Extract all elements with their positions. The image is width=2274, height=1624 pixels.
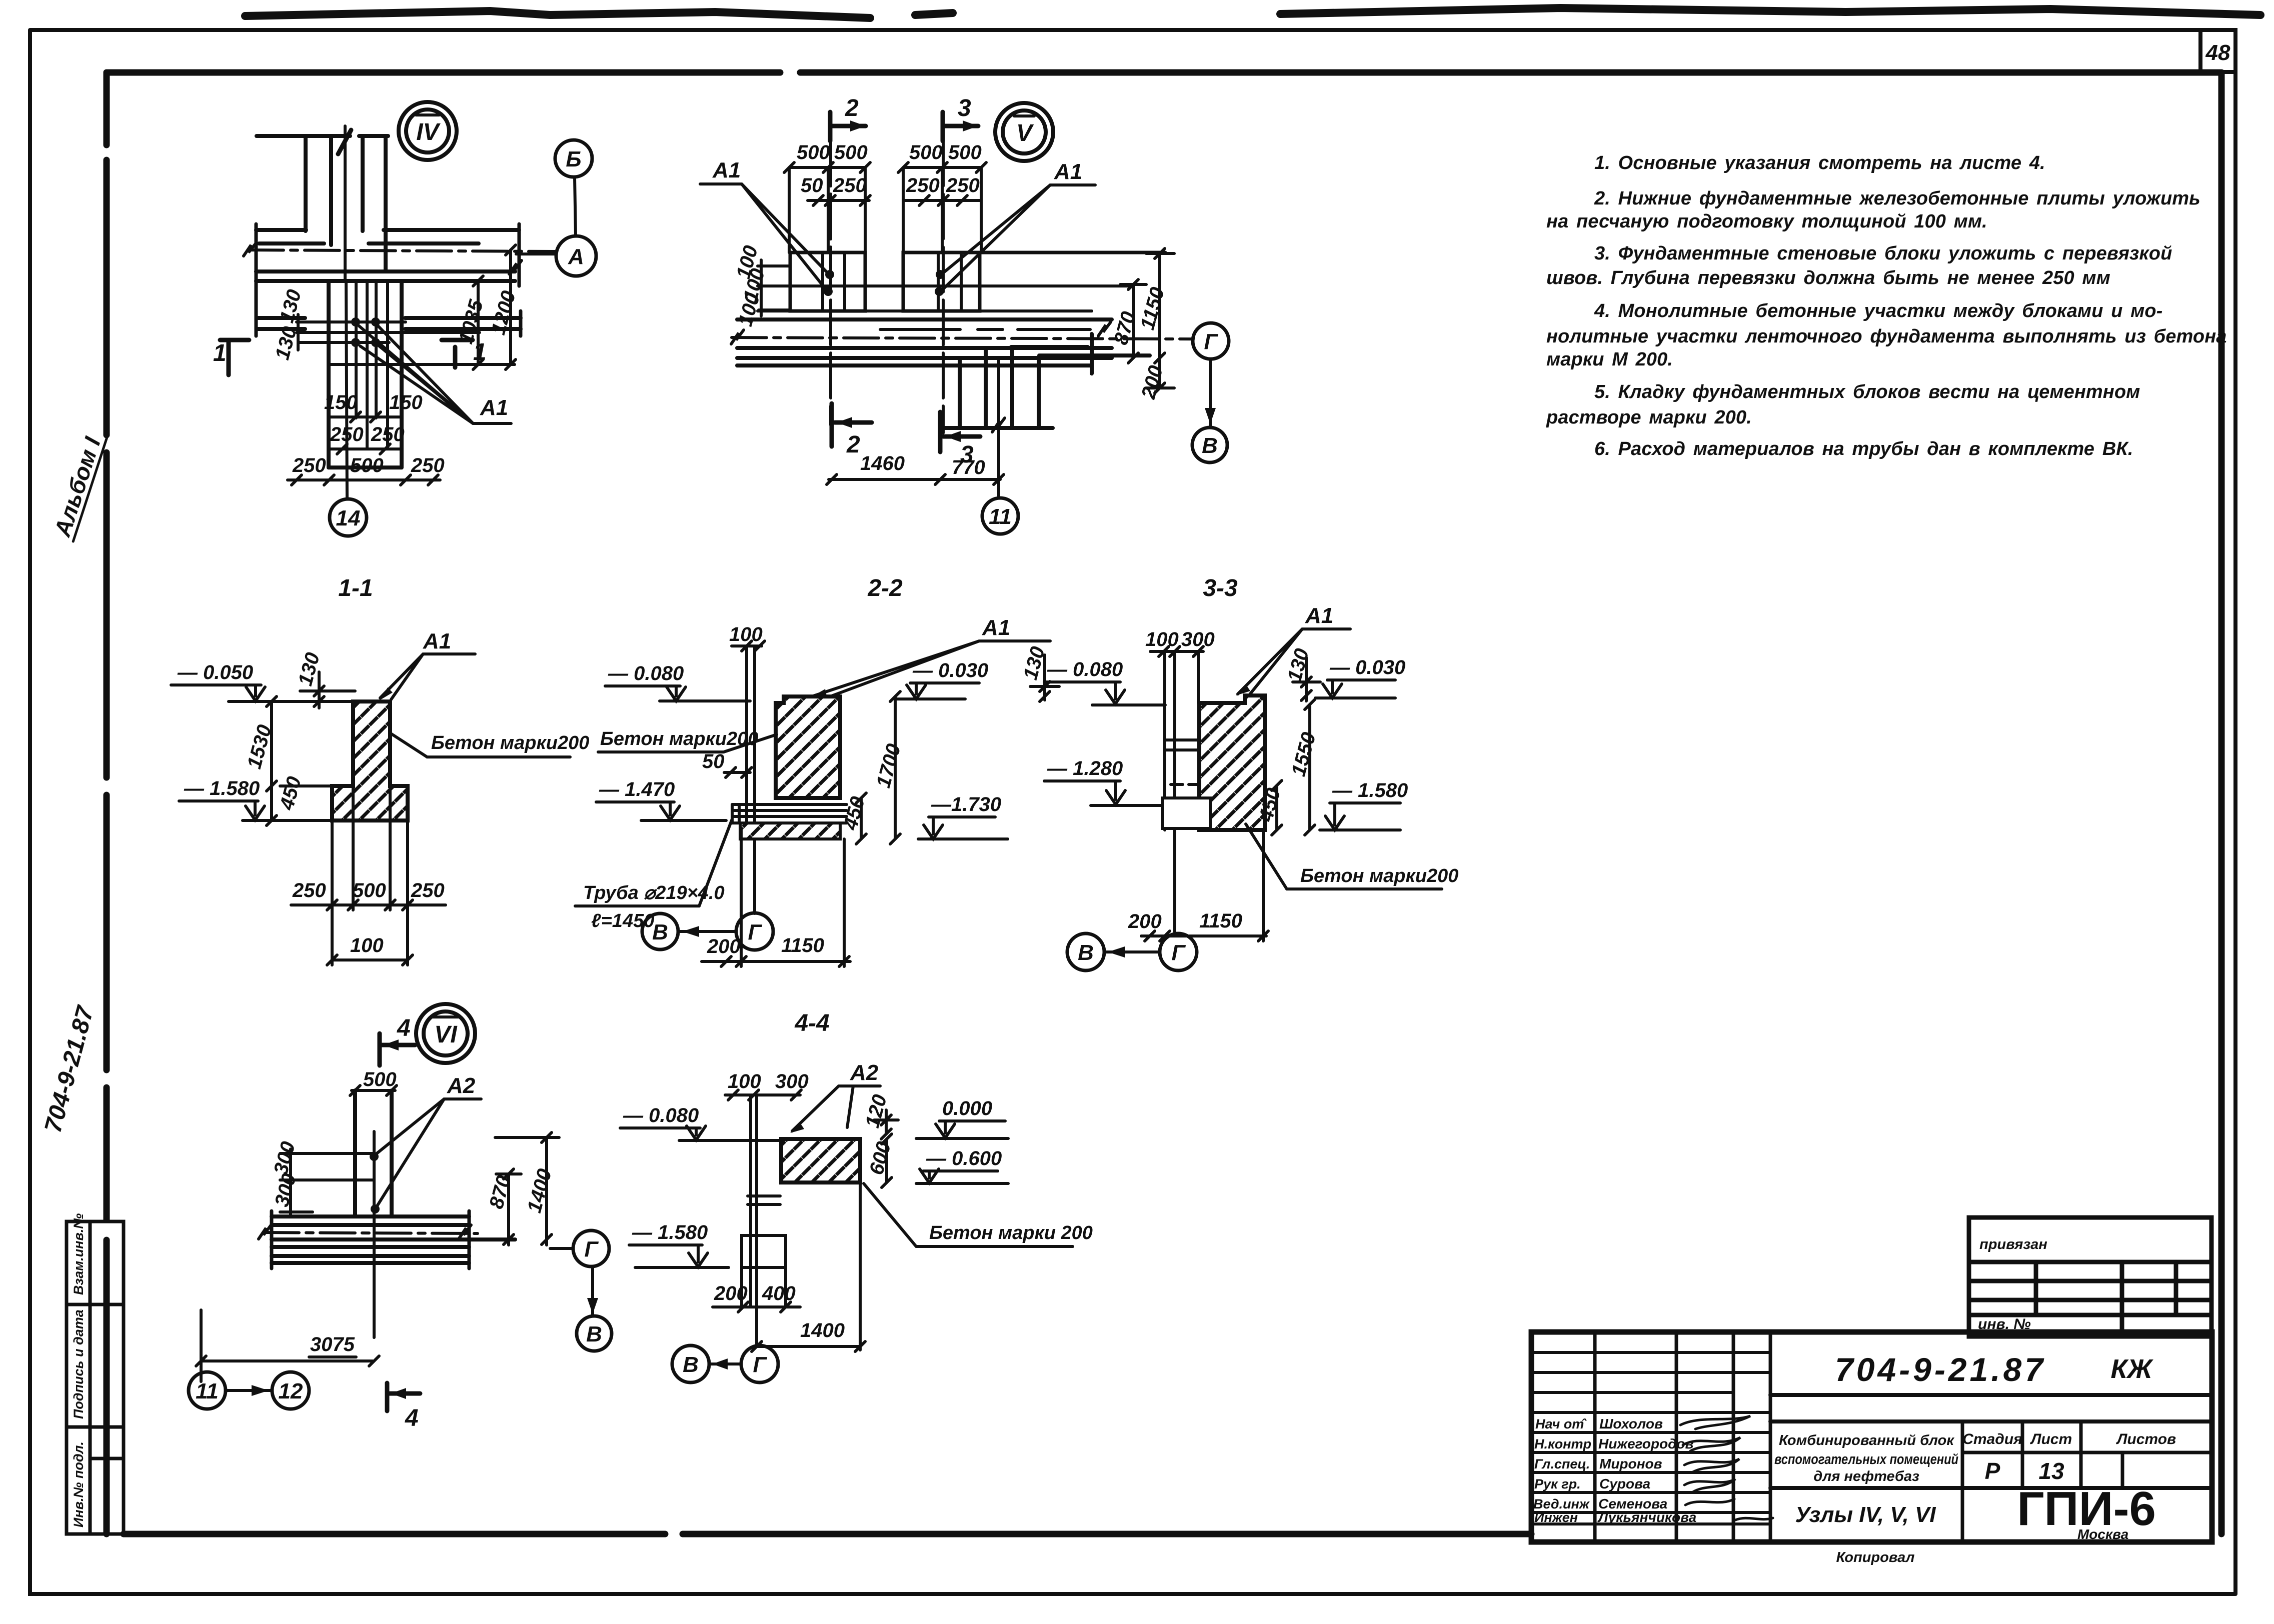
- long reference line block bottoms: [758, 309, 1092, 312]
- foundation block white sec 3-3: [1162, 798, 1210, 828]
- svg-text:растворе марки 200.: растворе марки 200.: [1546, 407, 1752, 428]
- block 1 plan V: [790, 252, 865, 311]
- break marks band plan VI: [259, 1225, 271, 1239]
- svg-text:4: 4: [405, 1405, 419, 1431]
- axis bubble 11 plan V: [982, 498, 1018, 534]
- axis bubbles 11 12 plan VI: [189, 1372, 226, 1409]
- svg-text:48: 48: [2205, 40, 2230, 65]
- svg-text:300: 300: [271, 1171, 301, 1209]
- dim 1530 450 vertical: [267, 696, 332, 825]
- svg-text:250: 250: [292, 879, 326, 901]
- wall pair sec 2-2: [745, 646, 748, 827]
- svg-text:200: 200: [1128, 910, 1162, 932]
- branch centerline: [997, 358, 1000, 498]
- svg-text:марки М 200.: марки М 200.: [1546, 349, 1673, 370]
- dim 1700 sec 2-2: [890, 691, 900, 844]
- svg-text:50: 50: [702, 750, 725, 772]
- svg-text:870: 870: [1110, 309, 1140, 347]
- svg-text:Гл.спец.: Гл.спец.: [1534, 1456, 1590, 1471]
- svg-text:1150: 1150: [1136, 285, 1169, 332]
- privyazan box: [1969, 1217, 2211, 1336]
- svg-text:100: 100: [350, 934, 384, 956]
- svg-text:Узлы IV, V, VI: Узлы IV, V, VI: [1795, 1502, 1936, 1527]
- svg-text:1150: 1150: [781, 934, 824, 956]
- svg-text:Бетон марки200: Бетон марки200: [1300, 865, 1458, 886]
- svg-text:50: 50: [801, 174, 823, 196]
- axis line G-V plan VI: [591, 1266, 594, 1316]
- svg-text:12: 12: [279, 1379, 303, 1403]
- foundation section 1-1 hatched: [332, 701, 408, 820]
- svg-text:4-4: 4-4: [794, 1010, 829, 1036]
- svg-text:— 1.580: — 1.580: [1332, 779, 1408, 801]
- svg-text:Стадия: Стадия: [1962, 1431, 2022, 1447]
- svg-text:Бетон марки200: Бетон марки200: [431, 732, 589, 753]
- svg-text:Москва: Москва: [2077, 1526, 2128, 1542]
- svg-text:300: 300: [1181, 628, 1215, 650]
- title block outer: [1531, 1332, 2212, 1542]
- svg-text:2. Нижние фундаментные жел: 2. Нижние фундаментные железобетонные пл…: [1594, 188, 2200, 209]
- dim 1035 vertical: [473, 276, 483, 369]
- upper wall edge right of blocks: [980, 251, 1165, 254]
- dim base line lower: [329, 363, 515, 366]
- band centerline row G: [732, 337, 1193, 339]
- svg-text:100: 100: [728, 1070, 761, 1092]
- inner frame top: [107, 69, 2221, 76]
- name labels: [1597, 1416, 1696, 1525]
- axis bubble V plan VI: [577, 1316, 612, 1351]
- svg-text:Миронов: Миронов: [1599, 1456, 1662, 1471]
- wall pair sec 3-3: [1163, 651, 1166, 830]
- svg-text:— 0.080: — 0.080: [1047, 658, 1123, 680]
- wall centerline vertical plan VI: [373, 1131, 376, 1337]
- wall pair sec 4-4: [749, 1095, 752, 1306]
- svg-text:А2: А2: [850, 1060, 879, 1085]
- axis line A: [516, 252, 556, 255]
- svg-text:450: 450: [839, 794, 869, 832]
- svg-text:Листов: Листов: [2116, 1431, 2176, 1447]
- A1 leader plan IV: [359, 326, 511, 423]
- dim 200 right: [1146, 358, 1174, 393]
- svg-text:250: 250: [292, 454, 326, 476]
- hidden edge dash sec 3-3: [1171, 783, 1199, 786]
- dim 1550 sec 3-3: [1305, 699, 1315, 835]
- axis line B: [575, 177, 576, 236]
- wall joint lines sec 4-4: [748, 1194, 780, 1197]
- svg-text:Вед.инж: Вед.инж: [1533, 1496, 1590, 1511]
- svg-text:1700: 1700: [872, 741, 905, 790]
- dim 150 150: [330, 415, 400, 418]
- svg-text:В: В: [652, 920, 668, 944]
- svg-text:5. Кладку фундаментных бло: 5. Кладку фундаментных блоков вести на ц…: [1594, 381, 2140, 402]
- stage grid: [1962, 1421, 2212, 1542]
- dim 250 500 250 sec 1-1: [291, 903, 446, 906]
- svg-text:770: 770: [952, 456, 985, 478]
- block 2 plan V: [903, 252, 980, 311]
- svg-text:1-1: 1-1: [338, 575, 373, 601]
- svg-text:В: В: [586, 1322, 602, 1346]
- section cut line 2 vertical: [829, 141, 832, 425]
- svg-text:Г: Г: [584, 1237, 599, 1261]
- svg-text:4: 4: [397, 1015, 411, 1041]
- svg-text:0.000: 0.000: [942, 1097, 992, 1119]
- svg-text:Бетон марки 200: Бетон марки 200: [929, 1222, 1093, 1243]
- wall pair above band plan VI: [353, 1090, 357, 1216]
- svg-text:200: 200: [707, 935, 741, 957]
- svg-text:1550: 1550: [1287, 730, 1320, 778]
- wall band row G: [737, 319, 1112, 365]
- dim 250 250: [330, 447, 400, 450]
- svg-text:250: 250: [371, 423, 405, 445]
- svg-text:V: V: [1016, 120, 1034, 146]
- svg-text:1400: 1400: [523, 1166, 556, 1215]
- lower hatched strip sec 2-2: [740, 823, 840, 839]
- section mark 2 top: [830, 112, 866, 141]
- svg-text:2: 2: [846, 431, 860, 458]
- svg-text:Комбинированный блок: Комбинированный блок: [1779, 1432, 1954, 1448]
- svg-text:500: 500: [363, 1068, 397, 1090]
- concrete block sec 3-3 hatched: [1199, 695, 1265, 830]
- A2 dots plan VI: [370, 1152, 380, 1213]
- svg-text:Инжен: Инжен: [1534, 1510, 1578, 1525]
- svg-text:6. Расход материалов на т: 6. Расход материалов на трубы дан в комп…: [1594, 438, 2133, 459]
- svg-text:на песчаную подготовку толщ: на песчаную подготовку толщиной 100 мм.: [1546, 211, 1987, 232]
- svg-text:1400: 1400: [800, 1319, 845, 1341]
- svg-text:Рук гр.: Рук гр.: [1534, 1476, 1581, 1491]
- svg-text:А: А: [568, 244, 584, 269]
- dim 870 right: [1120, 279, 1146, 363]
- dim extension verticals to blocks: [789, 167, 981, 252]
- left stamp table: [67, 1221, 124, 1534]
- break mark right: [509, 260, 522, 274]
- svg-text:— 0.600: — 0.600: [926, 1147, 1002, 1169]
- svg-text:704-9-21.87: 704-9-21.87: [40, 1002, 99, 1135]
- section cut line 1 vertical: [344, 126, 347, 280]
- svg-text:1: 1: [213, 340, 227, 366]
- wall band centerline: [249, 250, 556, 251]
- svg-text:КЖ: КЖ: [2110, 1354, 2153, 1384]
- svg-text:нолитные участки ленточного: нолитные участки ленточного фундамента в…: [1546, 326, 2227, 347]
- svg-text:2: 2: [845, 95, 859, 121]
- axis bubbles V G sec 3-3: [1067, 933, 1104, 970]
- dim 1200 vertical: [506, 245, 516, 369]
- wall centerline vertical: [346, 281, 347, 498]
- section mark 1 right: [442, 340, 473, 367]
- svg-text:привязан: привязан: [1979, 1236, 2047, 1252]
- foundation block lower sec 4-4: [740, 1267, 743, 1306]
- dim 130 top: [300, 672, 355, 708]
- dim 450 sec 2-2: [856, 793, 866, 844]
- svg-text:870: 870: [485, 1173, 515, 1211]
- axis bubbles V G sec 2-2: [642, 913, 678, 949]
- dim 120 sec 4-4: [874, 1110, 898, 1139]
- svg-text:250: 250: [411, 454, 445, 476]
- svg-text:250: 250: [411, 879, 445, 901]
- rebar dots A1: [351, 317, 380, 347]
- svg-text:В: В: [683, 1352, 699, 1377]
- dim 250 500 250 bottom: [288, 478, 440, 481]
- svg-text:вспомогательных помещений: вспомогательных помещений: [1774, 1451, 1958, 1467]
- svg-text:Г: Г: [1204, 329, 1218, 354]
- axis bubble V plan V: [1192, 427, 1227, 462]
- svg-text:2-2: 2-2: [867, 575, 903, 601]
- role labels: [1533, 1416, 1591, 1525]
- dim 100 sec 1-1: [332, 958, 408, 961]
- svg-text:— 1.580: — 1.580: [632, 1221, 708, 1243]
- band end ticks: [256, 224, 521, 336]
- svg-text:300: 300: [270, 1139, 300, 1177]
- svg-text:Шохолов: Шохолов: [1599, 1416, 1663, 1431]
- inner frame right: [2218, 72, 2225, 1534]
- svg-text:500: 500: [909, 141, 943, 163]
- svg-text:14: 14: [336, 506, 361, 530]
- svg-text:3: 3: [958, 95, 971, 121]
- svg-text:250: 250: [946, 174, 980, 196]
- project title: [1774, 1432, 1958, 1484]
- svg-text:704-9-21.87: 704-9-21.87: [1835, 1351, 2046, 1388]
- inner frame bottom: [124, 1531, 1531, 1537]
- svg-text:450: 450: [276, 774, 306, 812]
- svg-text:Г: Г: [748, 920, 762, 944]
- svg-text:—1.730: —1.730: [931, 793, 1001, 815]
- svg-text:Альбом I: Альбом I: [49, 433, 106, 540]
- dim 250 250: [903, 199, 981, 202]
- section mark 3 top: [943, 112, 978, 141]
- title block left table rows: [1531, 1352, 1770, 1524]
- svg-text:250: 250: [833, 174, 867, 196]
- section mark 1 left: [220, 340, 249, 375]
- section mark 4 top: [380, 1033, 415, 1065]
- svg-text:швов. Глубина перевязки дол: швов. Глубина перевязки должна быть не м…: [1546, 267, 2110, 288]
- section mark 2 bottom: [832, 403, 872, 446]
- dim lines 130 130 left: [297, 314, 406, 350]
- svg-text:3-3: 3-3: [1203, 575, 1238, 601]
- lower wall of plan IV: [329, 281, 402, 467]
- svg-text:Сурова: Сурова: [1599, 1476, 1650, 1491]
- svg-text:500: 500: [834, 141, 868, 163]
- svg-text:250: 250: [906, 174, 940, 196]
- svg-text:200: 200: [714, 1282, 748, 1304]
- section cut line 3 vertical: [942, 141, 945, 433]
- svg-text:1150: 1150: [1199, 910, 1242, 932]
- dim 130 sec 3-3: [1293, 657, 1320, 701]
- scan artifact top edge: [245, 8, 2260, 18]
- foundation block sec 4-4: [742, 1235, 786, 1267]
- title block left table verticals: [1595, 1332, 1770, 1542]
- svg-text:— 0.030: — 0.030: [1329, 656, 1405, 678]
- svg-text:500: 500: [350, 454, 384, 476]
- T branch below band: [945, 334, 1150, 428]
- dim 600 sec 4-4: [882, 1134, 892, 1187]
- svg-text:Н.контр: Н.контр: [1534, 1436, 1591, 1451]
- node V bubble: [995, 103, 1053, 161]
- svg-text:Подпись и дата: Подпись и дата: [71, 1309, 86, 1419]
- svg-text:13: 13: [2038, 1458, 2064, 1484]
- svg-text:Взам.инв.№: Взам.инв.№: [71, 1213, 86, 1295]
- dim 500 500 left group: [789, 166, 865, 169]
- band break marks: [731, 330, 744, 344]
- svg-text:Нижегородов: Нижегородов: [1598, 1436, 1693, 1451]
- band end ticks plan VI: [270, 1211, 274, 1268]
- svg-text:— 1.280: — 1.280: [1047, 757, 1123, 779]
- svg-text:Г: Г: [1171, 940, 1186, 965]
- svg-text:100: 100: [729, 623, 763, 645]
- dim 200 1150 sec 3-3: [1141, 934, 1266, 937]
- concrete block sec 2-2 hatched: [776, 696, 840, 798]
- svg-text:В: В: [1202, 433, 1218, 458]
- dim 500 500 right group: [903, 166, 981, 169]
- svg-text:1. Основные указания смотр: 1. Основные указания смотреть на листе 4…: [1594, 152, 2045, 173]
- svg-text:4. Монолитные бетонные уча: 4. Монолитные бетонные участки между бло…: [1594, 300, 2162, 321]
- svg-text:Копировал: Копировал: [1836, 1549, 1915, 1565]
- dim 450 sec 3-3: [1272, 780, 1282, 835]
- svg-text:В: В: [1078, 940, 1094, 965]
- svg-text:— 1.580: — 1.580: [184, 777, 260, 799]
- svg-text:3075: 3075: [310, 1333, 355, 1355]
- svg-text:500: 500: [797, 141, 830, 163]
- stage headers: [1962, 1431, 2176, 1447]
- margin text 704-9-21.87: [40, 1002, 99, 1135]
- svg-text:— 1.470: — 1.470: [599, 778, 675, 800]
- node IV bubble: [399, 102, 457, 160]
- dim 1150 right: [1146, 248, 1174, 363]
- svg-text:А1: А1: [1305, 603, 1333, 628]
- svg-text:А2: А2: [447, 1073, 476, 1098]
- svg-text:Лист: Лист: [2030, 1431, 2072, 1447]
- axis bubble G plan V: [1193, 323, 1229, 359]
- svg-text:150: 150: [389, 391, 423, 413]
- dim 200 1150 sec 2-2: [702, 960, 850, 963]
- svg-text:для нефтебаз: для нефтебаз: [1813, 1468, 1919, 1484]
- svg-text:11: 11: [196, 1379, 219, 1403]
- svg-text:Лукьянчикова: Лукьянчикова: [1597, 1509, 1696, 1525]
- svg-text:— 0.080: — 0.080: [608, 662, 684, 684]
- band centerline plan VI: [264, 1232, 478, 1233]
- wall band plan VI: [272, 1216, 515, 1263]
- svg-text:150: 150: [324, 391, 358, 413]
- dim line to 1035: [297, 331, 480, 334]
- svg-text:1: 1: [473, 339, 487, 365]
- wall joint dashes sec 3-3: [1165, 738, 1198, 741]
- svg-text:300: 300: [775, 1070, 809, 1092]
- node VI bubble: [416, 1004, 475, 1063]
- dim 1400 plan VI: [495, 1132, 559, 1245]
- margin text albom: [49, 429, 107, 541]
- upper wall of plan IV: [257, 136, 388, 270]
- branch break mark: [992, 418, 1005, 432]
- svg-text:1460: 1460: [860, 452, 905, 474]
- svg-text:А1: А1: [712, 158, 741, 182]
- concrete block sec 4-4 hatched: [781, 1139, 860, 1182]
- long reference line 870 upper: [758, 284, 1133, 287]
- horizontal wall band row A: [256, 230, 521, 329]
- axis bubble B top: [555, 140, 592, 177]
- section mark 4 bottom: [387, 1383, 420, 1411]
- svg-text:Р: Р: [1985, 1458, 2000, 1484]
- svg-text:Инв.№ подл.: Инв.№ подл.: [71, 1441, 86, 1527]
- section mark 3 bottom: [940, 412, 980, 452]
- axis bubble 14: [330, 499, 367, 536]
- svg-text:200: 200: [1137, 363, 1167, 401]
- svg-text:— 0.080: — 0.080: [623, 1104, 699, 1126]
- svg-text:500: 500: [353, 879, 386, 901]
- axis bubble A: [556, 236, 596, 276]
- svg-text:100: 100: [1145, 628, 1179, 650]
- title block right horizontal lines: [1770, 1395, 2212, 1488]
- left dims 300 300 plan VI: [280, 1149, 374, 1216]
- svg-text:Г: Г: [753, 1352, 767, 1377]
- dim 50 250: [808, 199, 869, 202]
- axis bubble G plan VI: [573, 1230, 609, 1266]
- svg-text:А1: А1: [982, 615, 1010, 640]
- svg-text:А1: А1: [423, 629, 451, 653]
- svg-text:250: 250: [330, 423, 364, 445]
- axis line G-V: [1209, 359, 1212, 427]
- dim 1460 770 bottom: [829, 478, 1000, 481]
- svg-text:3. Фундаментные стеновые б: 3. Фундаментные стеновые блоки уложить с…: [1594, 243, 2172, 264]
- svg-text:— 0.050: — 0.050: [177, 661, 253, 683]
- svg-text:IV: IV: [416, 119, 441, 145]
- svg-text:Нач от̂: Нач от̂: [1535, 1416, 1587, 1431]
- axis bubbles V G sec 4-4: [672, 1345, 709, 1382]
- svg-text:11: 11: [989, 504, 1012, 529]
- inner frame left (dashed hand-inked): [104, 72, 110, 1534]
- signatures scribble: [1680, 1416, 1773, 1520]
- left small dims 100 100 100: [758, 260, 790, 316]
- break mark left: [244, 243, 256, 256]
- svg-text:— 0.030: — 0.030: [912, 659, 988, 681]
- svg-text:Б: Б: [566, 147, 581, 171]
- band partial top edge dashes: [880, 328, 1090, 331]
- dim 130 sec 2-2: [1030, 655, 1059, 701]
- dim 870 plan VI: [496, 1169, 521, 1245]
- svg-text:600: 600: [865, 1139, 895, 1177]
- svg-text:Бетон марки200: Бетон марки200: [600, 728, 758, 749]
- sheet number box: [2200, 30, 2235, 72]
- svg-text:VI: VI: [434, 1021, 458, 1048]
- svg-text:А1: А1: [1054, 159, 1082, 184]
- pipe sec 2-2: [732, 804, 847, 823]
- A1 rebar dots plan V: [824, 270, 945, 296]
- svg-text:500: 500: [948, 141, 982, 163]
- svg-text:А1: А1: [480, 395, 508, 420]
- rebar lines lower wall: [356, 281, 388, 449]
